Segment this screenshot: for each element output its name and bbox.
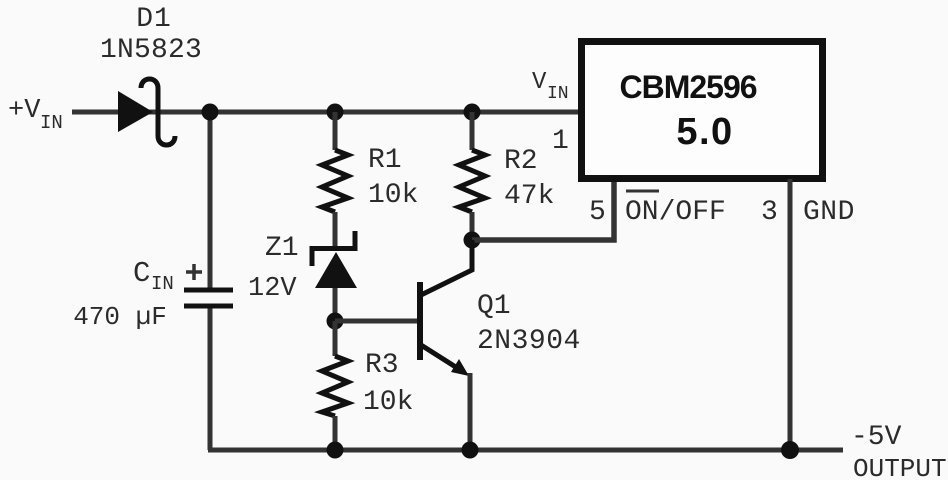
svg-text:ON/OFF: ON/OFF	[625, 197, 726, 228]
svg-text:CBM2596: CBM2596	[619, 69, 756, 105]
wire: Z1 anode to base node	[333, 288, 338, 321]
wire: CIN bottom plate to ground rail	[208, 306, 213, 450]
wire: junction to ON/OFF pin 5	[472, 179, 614, 240]
wire: R3 to ground rail	[333, 416, 338, 450]
wire: Q1 emitter to ground rail	[468, 373, 473, 450]
label +VIN	[8, 96, 63, 134]
svg-text:IN: IN	[151, 273, 174, 295]
transistor Q1 (2N3904)	[420, 240, 472, 376]
svg-text:470 µF: 470 µF	[73, 302, 167, 332]
wire: top rail to R2	[470, 112, 475, 150]
wire: R2 to collector node	[470, 212, 475, 240]
CIN polarity +	[186, 264, 202, 280]
node: R2 top junction	[464, 104, 481, 121]
svg-text:R1: R1	[368, 145, 402, 176]
svg-text:10k: 10k	[363, 387, 413, 418]
svg-text:OUTPUT: OUTPUT	[853, 454, 947, 480]
label ON/OFF with overline on ON	[625, 191, 726, 228]
resistor R3	[322, 356, 348, 416]
node: emitter ground junction	[462, 442, 479, 459]
resistor R2	[459, 150, 485, 212]
svg-text:2N3904: 2N3904	[477, 326, 581, 357]
svg-text:5: 5	[589, 197, 606, 228]
svg-text:GND: GND	[803, 197, 855, 228]
svg-text:IN: IN	[40, 112, 63, 134]
wire: +VIN input to IC VIN (top rail)	[72, 110, 584, 115]
svg-text:Z1: Z1	[265, 233, 299, 264]
wire: base node to Q1 base	[335, 319, 418, 324]
resistor R1	[322, 150, 348, 212]
diode D1 (Schottky 1N5823)	[118, 79, 175, 145]
wire: R1 to Z1 cathode	[333, 212, 338, 250]
svg-text:10k: 10k	[368, 180, 418, 211]
wire: ground rail (bottom)	[208, 448, 843, 453]
node: R3 ground junction	[327, 442, 344, 459]
capacitor CIN plates	[184, 290, 233, 306]
node: R2/collector/ON-OFF junction	[464, 232, 481, 249]
svg-text:3: 3	[761, 197, 778, 228]
wire: base node to R3	[333, 321, 338, 356]
svg-text:C: C	[133, 257, 150, 290]
svg-text:V: V	[532, 69, 547, 96]
svg-text:47k: 47k	[504, 181, 554, 212]
svg-text:12V: 12V	[248, 274, 297, 304]
label CIN	[133, 257, 174, 295]
node: Z1/R3/base junction	[327, 313, 344, 330]
label VIN (pin)	[532, 69, 569, 104]
svg-text:R3: R3	[365, 350, 399, 381]
wire: left branch vertical (top rail to CIN top plate)	[208, 112, 213, 290]
svg-text:R2: R2	[504, 146, 538, 177]
svg-text:D1: D1	[136, 4, 172, 35]
svg-text:Q1: Q1	[477, 291, 511, 322]
wire: top rail to R1	[333, 112, 338, 150]
regulator U1 CBM2596 body	[582, 42, 823, 179]
node: diode cathode junction	[202, 104, 219, 121]
node: R1 top junction	[327, 104, 344, 121]
node: GND ground junction	[781, 441, 799, 459]
svg-text:1: 1	[552, 126, 569, 157]
svg-text:+V: +V	[8, 96, 41, 126]
svg-text:5.0: 5.0	[676, 111, 733, 153]
svg-text:-5V: -5V	[851, 422, 902, 453]
zener Z1 (12V)	[312, 231, 357, 288]
wire: GND pin 3 to ground rail	[788, 179, 793, 450]
svg-text:IN: IN	[547, 84, 569, 104]
svg-text:1N5823: 1N5823	[100, 35, 202, 66]
